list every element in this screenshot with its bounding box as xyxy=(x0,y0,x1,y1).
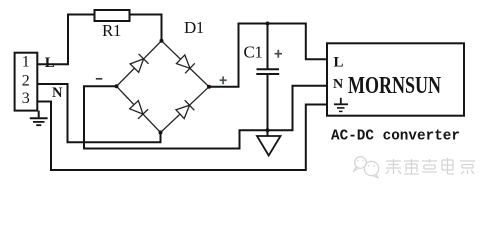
svg-text:N: N xyxy=(333,77,343,92)
node: bridge right vertex xyxy=(207,85,211,89)
capacitor C1 top lead xyxy=(267,24,269,70)
wire N: terminal 2 to bridge bottom xyxy=(37,84,160,142)
op module U1: MORNSUN AC-DC converter box xyxy=(327,43,464,115)
svg-text:C1: C1 xyxy=(244,42,263,61)
resistor R1 xyxy=(95,10,130,21)
wire ground: terminal 3 to converter ground pin (bottom rail) xyxy=(37,102,327,171)
wire: R1 right lead to bridge top xyxy=(130,15,162,41)
char 3 xyxy=(422,159,437,172)
svg-text:D1: D1 xyxy=(184,18,204,37)
node: C1 top junction xyxy=(266,22,270,26)
ground (converter ground pin symbol) xyxy=(334,98,348,112)
svg-text:1: 1 xyxy=(22,54,30,71)
node: bridge bottom vertex xyxy=(159,131,163,135)
char 5 xyxy=(460,161,475,174)
diode D1d (bottom vertex to right vertex) xyxy=(175,100,194,119)
wire minus: bridge left vertex to converter N pin xyxy=(84,86,327,149)
node: C1 bottom junction xyxy=(266,128,270,132)
char 2 xyxy=(404,159,419,174)
label minus (bridge negative output) xyxy=(96,78,103,80)
diode D1c (left vertex to bottom vertex) xyxy=(129,100,148,119)
svg-text:N: N xyxy=(52,85,63,101)
char 4 xyxy=(442,158,454,174)
ground (earth triangle below C1) xyxy=(257,136,281,156)
watermark text 莱福德电源 (drawn strokes) xyxy=(386,158,475,174)
diode D1b (top vertex to right vertex) xyxy=(176,54,195,73)
diode D1a (left vertex to top vertex) xyxy=(129,54,148,73)
wire plus: bridge right vertex to converter L pin xyxy=(209,24,327,87)
watermark logo (two chat bubbles) xyxy=(354,157,379,178)
svg-text:3: 3 xyxy=(22,90,30,107)
wire L: terminal 1 to R1 left lead xyxy=(37,15,94,65)
bridge rectifier D1 diamond xyxy=(117,41,210,133)
capacitor C1 bottom lead xyxy=(267,75,269,137)
node: bridge left vertex xyxy=(115,84,119,88)
char 1 xyxy=(386,159,401,174)
label plus (bridge positive output) xyxy=(220,76,227,84)
svg-text:AC-DC converter: AC-DC converter xyxy=(331,129,460,145)
svg-text:L: L xyxy=(45,55,55,71)
svg-text:R1: R1 xyxy=(102,21,121,40)
ground (below connector) xyxy=(30,111,48,126)
svg-text:2: 2 xyxy=(22,72,30,89)
label + (C1 polarity) xyxy=(275,50,282,58)
svg-text:L: L xyxy=(334,54,344,70)
svg-text:MORNSUN: MORNSUN xyxy=(348,72,441,99)
node: bridge top vertex xyxy=(160,39,164,43)
capacitor C1 plates xyxy=(257,68,280,70)
connector terminal block 1-2-3 xyxy=(15,53,38,111)
